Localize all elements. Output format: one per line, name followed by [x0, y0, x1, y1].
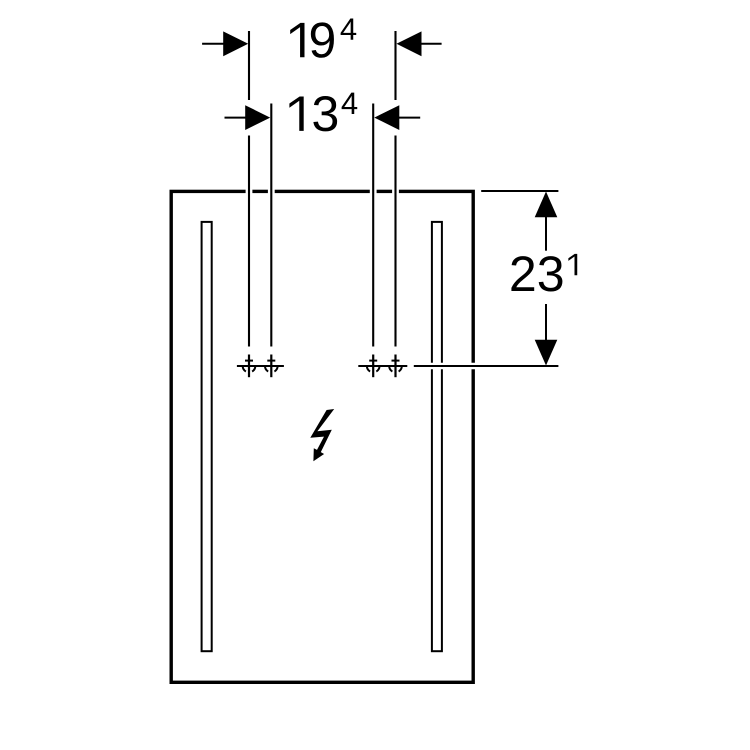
extension line x=249 lower segment (halo crossing mirror edge) — [246, 136, 253, 347]
dimension label 19 — [290, 22, 334, 57]
mounting point symbol 1 (x=249) — [243, 355, 256, 378]
extension line x=395.5 upper segment — [394, 31, 396, 100]
dimension 19-4 left tail — [202, 43, 224, 45]
right LED light strip — [432, 222, 442, 651]
dimension 19-4 right arrowhead — [397, 31, 422, 56]
superscript 4 of 19-4 — [341, 18, 357, 39]
top reference line (right of mirror, y=191) — [481, 190, 558, 192]
dimension 23-1 lower shaft — [545, 304, 547, 343]
dimension 13-4 right tail — [399, 117, 421, 119]
dimension 23-1 upper shaft — [545, 217, 547, 251]
mirror outline — [171, 191, 473, 682]
mounting pair line right (y=366) — [358, 365, 407, 367]
superscript 1 of 23-1 — [568, 254, 577, 275]
dimension 23-1 up arrowhead — [535, 192, 558, 218]
extension line x=271.3 (halo crossing mirror edge) — [268, 104, 275, 347]
electrical connection lightning bolt — [310, 409, 334, 461]
dimension 13-4 left arrowhead — [245, 105, 270, 130]
mounting point symbol 4 (x=395.5) — [389, 355, 402, 378]
dimension 23-1 down arrowhead — [535, 340, 558, 366]
dimension label 23 — [511, 256, 562, 291]
mounting point symbol 2 (x=271.3) — [265, 355, 278, 378]
extension line x=395.5 lower segment (halo crossing mirror edge) — [392, 136, 399, 347]
left LED light strip — [202, 222, 212, 651]
dimension 13-4 left tail — [225, 117, 247, 119]
mounting pair line left (y=366) — [237, 365, 284, 367]
dimension label 13 — [289, 96, 337, 131]
dimension 13-4 right arrowhead — [374, 105, 399, 130]
superscript 4 of 13-4 — [342, 93, 358, 114]
dimension 19-4 left arrowhead — [223, 31, 248, 56]
bottom reference line (y=366, halo cuts strips and mirror edge) — [414, 363, 559, 370]
dimension 19-4 right tail — [421, 43, 442, 45]
extension line x=249 upper segment — [248, 31, 250, 100]
extension line x=373.2 (halo crossing mirror edge) — [370, 104, 377, 347]
mounting point symbol 3 (x=373.2) — [367, 355, 380, 378]
